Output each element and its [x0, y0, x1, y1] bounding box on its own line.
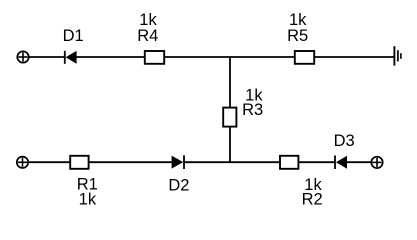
wire bottom rail R2 to D3: [298, 161, 335, 163]
wire bottom rail node B to R2: [230, 161, 280, 163]
diode D1: [65, 51, 77, 64]
svg-text:R2: R2: [302, 190, 323, 208]
resistor R5: [295, 51, 314, 64]
wire top rail R4 to node T (junction): [164, 56, 230, 58]
terminal P3 (bottom right, plus): [371, 157, 382, 168]
svg-text:D2: D2: [168, 176, 189, 194]
wire top rail node T to R5: [230, 56, 295, 58]
svg-text:R4: R4: [137, 27, 158, 45]
wire top rail left segment (terminal to D1): [28, 56, 64, 58]
ground (right-facing): [394, 46, 401, 65]
wire bottom rail D3 to right terminal: [347, 161, 372, 163]
wire vertical branch R3 to node B: [229, 126, 231, 162]
svg-text:D1: D1: [63, 27, 84, 45]
wire top rail R5 to ground: [314, 56, 393, 58]
resistor R1: [70, 156, 88, 169]
resistor R3 (vertical): [223, 108, 236, 127]
wire bottom rail terminal to R1: [28, 161, 70, 163]
wire top rail D1 to R4: [76, 56, 144, 58]
terminal P1 (top left, plus): [17, 51, 28, 62]
svg-text:R3: R3: [242, 101, 263, 119]
svg-text:1k: 1k: [79, 190, 97, 208]
svg-text:R5: R5: [287, 27, 308, 45]
diode D3: [335, 156, 347, 170]
resistor R2: [280, 156, 298, 169]
wire bottom rail D2 to node B: [184, 161, 230, 163]
terminal P2 (bottom left, plus): [17, 157, 28, 168]
resistor R4: [145, 51, 164, 64]
diode D2: [172, 155, 184, 169]
wire vertical branch node T to R3: [229, 57, 231, 108]
svg-text:D3: D3: [334, 132, 355, 150]
wire bottom rail R1 to D2: [89, 161, 172, 163]
